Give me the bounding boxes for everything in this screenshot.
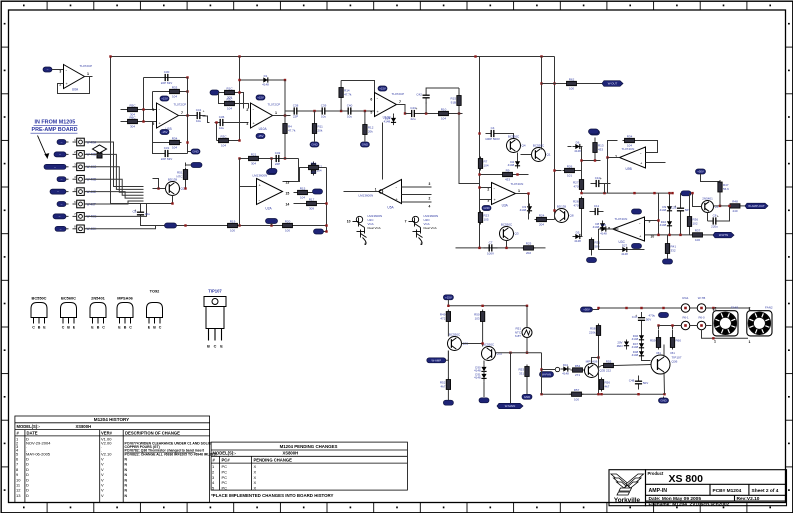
svg-text:151: 151 [656, 351, 661, 355]
net pill R52 [443, 400, 453, 405]
junction [657, 219, 659, 221]
wire U5A input 4 [402, 201, 432, 203]
wire C39-C40 [331, 110, 343, 112]
resistor R21 [247, 152, 261, 165]
svg-text:331: 331 [519, 371, 524, 375]
svg-text:XS800H: XS800H [283, 451, 299, 456]
connector pin 1 W-40A [73, 138, 98, 146]
resistor R20 [281, 219, 295, 232]
op-amp U1B [152, 103, 186, 132]
wire to C38 [285, 110, 290, 112]
wire to out flag [579, 83, 603, 85]
svg-text:TL074CN: TL074CN [511, 182, 524, 186]
transistor package TIP107 TO-220 [204, 289, 226, 349]
op-amp U5A LM13600N [379, 180, 402, 204]
svg-text:NTC: NTC [176, 174, 183, 178]
svg-text:433: 433 [598, 147, 603, 151]
svg-text:Yorkville: Yorkville [614, 497, 641, 504]
svg-text:6: 6 [152, 108, 154, 112]
svg-text:R19: R19 [230, 219, 236, 223]
wire to rtn flag [705, 234, 714, 236]
junction [668, 234, 670, 236]
svg-text:--: -- [57, 190, 59, 194]
wire U9B down to rail [607, 158, 609, 194]
thermistor R51 [522, 328, 532, 338]
resistor R62 [565, 77, 579, 90]
wire R gnd drop 2 [364, 111, 366, 125]
svg-text:Dual VCA: Dual VCA [424, 226, 437, 230]
svg-text:R2C: R2C [226, 97, 233, 101]
net pill U3C+ [632, 209, 642, 214]
svg-text:4148: 4148 [632, 337, 639, 341]
svg-text:47.7k: 47.7k [288, 128, 296, 132]
power pill U10A - [256, 134, 265, 139]
wire pill left [186, 164, 192, 166]
resistor R17 [305, 197, 319, 210]
diode D2 [508, 159, 520, 169]
svg-text:W-FAN: W-FAN [542, 372, 551, 376]
svg-text:204: 204 [539, 223, 544, 227]
resistor R58 [589, 324, 601, 338]
svg-text:10u: 10u [196, 119, 201, 123]
wire R36 top [689, 193, 691, 214]
wire pill to R1 [219, 92, 225, 94]
capacitor C48 [629, 376, 648, 390]
diode D8 [593, 221, 605, 231]
wire R60 to row2 [672, 326, 674, 330]
wire R9 right [515, 174, 529, 176]
svg-text:4k7: 4k7 [605, 384, 610, 388]
wire R9 left [480, 174, 501, 176]
svg-text:3: 3 [429, 182, 431, 186]
svg-text:X: X [254, 486, 257, 491]
junction [668, 192, 670, 194]
wire to gnd 2 [364, 137, 366, 142]
wire bundle 7 [84, 204, 146, 217]
svg-text:W-OUT: W-OUT [608, 82, 618, 86]
svg-text:4148: 4148 [621, 252, 628, 256]
svg-text:222: 222 [606, 369, 611, 373]
test point W-7B [697, 304, 706, 313]
svg-text:1: 1 [518, 189, 520, 193]
net pill fan+ [659, 313, 669, 318]
junction [142, 120, 144, 122]
net pill W-FAN [540, 372, 554, 378]
svg-text:Dual VCA: Dual VCA [368, 226, 381, 230]
net pill Q2 top [696, 169, 706, 174]
junction [606, 156, 608, 158]
capacitor C10 [591, 176, 605, 187]
test point W4A [555, 367, 559, 371]
svg-text:VER#: VER# [101, 431, 113, 436]
connector pin 6 W-40F [73, 200, 97, 208]
svg-text:6.8T: 6.8T [515, 334, 521, 338]
net label pin 3 [44, 164, 66, 169]
capacitor C11 [590, 204, 604, 215]
wire Q35 collector [592, 358, 599, 364]
svg-text:R1C: R1C [226, 86, 233, 90]
svg-text:100V: 100V [487, 252, 494, 256]
wire fan bias rail [448, 305, 527, 307]
svg-text:20k: 20k [368, 129, 373, 133]
svg-text:1: 1 [749, 340, 751, 344]
resistor R3 [217, 134, 231, 147]
svg-text:GND: GND [483, 206, 489, 210]
svg-text:100: 100 [230, 229, 235, 233]
diode D6 [573, 140, 583, 153]
svg-text:PRE-AMP BOARD: PRE-AMP BOARD [32, 127, 78, 133]
junction [478, 173, 480, 175]
junction [109, 55, 111, 57]
wire pill stub [271, 223, 273, 226]
resistor R1 [223, 86, 237, 99]
net pill row [267, 170, 277, 175]
wire R41 bottom [667, 256, 669, 259]
svg-text:AMP-IN: AMP-IN [649, 488, 668, 494]
net label pin 8 [55, 226, 66, 231]
wire pill to Q31 [446, 351, 449, 361]
wire U10B feedback [341, 81, 374, 93]
resistor R49 [440, 310, 451, 324]
net label pin 5 [50, 189, 66, 194]
wire R26 left [555, 170, 562, 172]
junction [186, 114, 188, 116]
svg-text:X: X [254, 469, 257, 474]
resistor R41 [665, 242, 676, 256]
svg-text:C48: C48 [629, 379, 635, 383]
svg-text:BC550C: BC550C [508, 134, 520, 138]
svg-text:BD139: BD139 [168, 177, 178, 181]
wire column 658 [658, 193, 660, 235]
svg-text:GND: GND [524, 395, 530, 399]
svg-text:4148: 4148 [660, 223, 667, 227]
wire Q36 emitter down [663, 372, 666, 394]
wire U5A input 2 [402, 194, 432, 196]
svg-text:R3C: R3C [220, 134, 227, 138]
svg-text:--: -- [47, 68, 49, 72]
wire to R62 [542, 83, 566, 85]
junction [526, 352, 528, 354]
wire pin14 to R17 [294, 203, 305, 205]
wire tp row2 mid [690, 325, 697, 327]
resistor R28 [573, 197, 584, 211]
wire fan vertical [326, 168, 328, 232]
transistor Q2 [702, 196, 719, 212]
junction [728, 205, 730, 207]
wire U10A output vertical [284, 80, 286, 159]
wire U2A in [240, 186, 257, 188]
capacitor C32 [271, 151, 285, 166]
svg-text:332: 332 [671, 248, 676, 252]
net flag W-MAIN-OUT [497, 403, 523, 408]
net flag AMP-RTN [713, 232, 734, 238]
transistor package 2N5401 [90, 296, 106, 330]
wire col669 top [669, 193, 671, 198]
svg-text:V: V [101, 493, 104, 498]
junction [284, 79, 286, 81]
junction [516, 173, 518, 175]
svg-text:4148: 4148 [384, 120, 391, 124]
resistor R22 [311, 162, 322, 176]
transistor Q32 [482, 342, 503, 360]
svg-text:ZEN: ZEN [617, 344, 623, 348]
svg-text:TL074CN: TL074CN [615, 217, 628, 221]
wire U3A in- [480, 187, 492, 189]
wire Q32 to D30 [483, 361, 485, 365]
wire U6A output stub [85, 76, 93, 78]
svg-text:C: C [102, 326, 105, 330]
junction [325, 202, 327, 204]
junction [474, 55, 476, 57]
junction [505, 247, 507, 249]
wire R33 row [153, 91, 188, 93]
svg-text:X: X [254, 464, 257, 469]
wire pill to pin 5 [66, 191, 69, 193]
resistor R12 [363, 123, 374, 137]
capacitor C42 [416, 90, 429, 104]
resistor R48 [728, 200, 742, 213]
wire row 160 [582, 160, 601, 162]
net pill thermistor [191, 163, 202, 168]
svg-text:104: 104 [441, 117, 446, 121]
junction [458, 112, 460, 114]
resistor R53 [518, 365, 529, 379]
wire Q22 base [153, 188, 166, 190]
junction [594, 159, 596, 161]
svg-text:IN FROM M1205: IN FROM M1205 [35, 120, 76, 126]
net pill R41 [663, 259, 673, 264]
junction [684, 307, 686, 309]
wire Q31 to Q32 [462, 343, 483, 345]
svg-text:+15V: +15V [161, 97, 168, 101]
svg-text:10u: 10u [145, 212, 150, 216]
junction [637, 393, 639, 395]
wire C41 to C36 [203, 116, 210, 123]
wire pin15 to R15f [294, 192, 296, 194]
svg-text:100: 100 [569, 87, 574, 91]
svg-text:M1204 HISTORY: M1204 HISTORY [94, 417, 130, 422]
wire Q22 emitter [144, 196, 173, 204]
wire diode tap [393, 114, 395, 116]
wire R56 top stub [601, 378, 603, 380]
resistor R16 [307, 161, 321, 174]
junction [671, 324, 673, 326]
svg-text:470: 470 [573, 203, 578, 207]
svg-text:Q35: Q35 [600, 369, 606, 373]
junction [657, 324, 659, 326]
capacitor C8b [708, 213, 722, 228]
svg-text:101: 101 [567, 174, 572, 178]
diode D48 [632, 349, 644, 359]
power pill U10A + [256, 95, 265, 100]
svg-text:304: 304 [130, 125, 135, 129]
junction [270, 224, 272, 226]
arrow to connector [38, 136, 48, 159]
net pill U3C- [632, 244, 642, 249]
svg-text:Q8: Q8 [570, 214, 574, 218]
svg-text:C: C [214, 345, 217, 349]
svg-text:R26: R26 [567, 164, 573, 168]
svg-text:104: 104 [221, 144, 226, 148]
diode D24 [384, 115, 396, 125]
junction [325, 224, 327, 226]
junction [691, 192, 693, 194]
junction [580, 159, 582, 161]
net pill rail192 [681, 191, 691, 196]
svg-text:--: -- [61, 202, 63, 206]
wire R15 right [310, 192, 313, 194]
transistor package TO92 [147, 289, 163, 330]
wire R53 down [526, 379, 528, 395]
junction [600, 393, 602, 395]
wire C47 down [641, 326, 643, 333]
fan FAN1 [713, 311, 738, 336]
wire R17 right [319, 203, 327, 205]
wire into Q35 [584, 369, 586, 371]
svg-text:2N5401: 2N5401 [702, 196, 713, 200]
wire Q2 emitter down [707, 213, 709, 222]
svg-text:R48: R48 [732, 200, 738, 204]
junction [340, 110, 342, 112]
junction [625, 307, 627, 309]
svg-text:50V: 50V [643, 381, 648, 385]
resistor R24 [535, 213, 549, 226]
svg-text:470: 470 [573, 184, 578, 188]
wire into R5 [121, 109, 126, 111]
diode D10 [660, 219, 672, 229]
wire R50 down [482, 324, 484, 347]
svg-text:--: -- [59, 215, 61, 219]
resistor R60 [670, 336, 681, 350]
svg-text:NOV-29-2004: NOV-29-2004 [26, 440, 51, 445]
wire D31 down [483, 381, 485, 397]
wire fan2 power [749, 308, 751, 311]
transistor Q35 [585, 359, 606, 377]
svg-text:103: 103 [475, 316, 480, 320]
net flag MAIN-OUT [602, 81, 623, 87]
resistor R7 [478, 157, 489, 171]
svg-text:104: 104 [484, 163, 489, 167]
net pill fan [314, 229, 324, 234]
wire R3 right [231, 140, 240, 142]
svg-text:B: B [38, 326, 41, 330]
wire bundle 2 [84, 154, 143, 189]
svg-text:151: 151 [670, 351, 675, 355]
svg-text:R6C: R6C [129, 115, 136, 119]
svg-text:C38: C38 [293, 103, 299, 107]
wire Q4 to D2 [517, 153, 519, 159]
wire C43 to R10 [420, 113, 437, 115]
wire C10 junction [604, 184, 606, 194]
connector pin 2 W-40B [73, 150, 97, 158]
svg-text:W-7B: W-7B [698, 296, 705, 300]
svg-text:4148: 4148 [474, 376, 481, 380]
svg-text:4148: 4148 [508, 163, 515, 167]
svg-text:R20: R20 [285, 219, 291, 223]
wire C31 right [174, 153, 188, 155]
wire pill to pin 3 [66, 166, 69, 168]
junction [540, 82, 542, 84]
wire pill to pin 7 [66, 215, 69, 217]
svg-text:XS800H: XS800H [76, 424, 92, 429]
junction [325, 230, 327, 232]
connector pin 5 W-40E [73, 187, 97, 195]
diode D1 [261, 74, 271, 87]
resistor R47 [718, 180, 729, 194]
svg-text:C11: C11 [594, 204, 600, 208]
wire fan1 power [712, 308, 714, 311]
wire Q22 bias [153, 179, 159, 189]
svg-text:C10: C10 [595, 176, 601, 180]
junction [603, 192, 605, 194]
svg-text:2: 2 [246, 108, 248, 112]
capacitor C39 [317, 103, 331, 118]
resistor R59 [650, 336, 661, 350]
svg-text:4148: 4148 [600, 232, 607, 236]
wire R6 to pin5 [140, 121, 157, 123]
svg-text:D6: D6 [576, 140, 580, 144]
wire left rail 479 [479, 57, 481, 249]
svg-text:R17: R17 [309, 197, 315, 201]
svg-text:2: 2 [715, 307, 717, 311]
net pill U9B [589, 129, 599, 134]
op-amp U3A [487, 182, 523, 208]
svg-text:*PLACE IMPLEMENTED CHANGES INT: *PLACE IMPLEMENTED CHANGES INTO BOARD HI… [211, 493, 333, 498]
wire R58 down [598, 338, 600, 358]
capacitor C36 [215, 115, 229, 130]
resistor R52 [440, 378, 451, 392]
wire long left vertical to rail [239, 159, 241, 226]
junction [663, 393, 665, 395]
net pill U10A input [210, 90, 219, 95]
svg-text:E: E [220, 345, 223, 349]
junction [425, 112, 427, 114]
svg-text:U9B: U9B [626, 167, 632, 171]
svg-text:2N5401: 2N5401 [91, 296, 105, 301]
net label pin 6 [57, 202, 66, 207]
junction [597, 356, 599, 358]
net pill rail [165, 223, 177, 228]
svg-text:309: 309 [309, 207, 314, 211]
connector pin 3 W-40C [73, 163, 98, 171]
junction [653, 192, 655, 194]
junction [270, 157, 272, 159]
resistor R4 [283, 122, 296, 136]
wire left drop [239, 80, 241, 141]
wire Q31 emitter down [447, 351, 449, 379]
svg-text:LM13600N: LM13600N [253, 174, 268, 178]
resistor R11 [312, 122, 323, 136]
wire thermistor bottom [185, 182, 187, 189]
svg-text:LM13600N: LM13600N [359, 194, 374, 198]
svg-text:XS 800: XS 800 [669, 473, 704, 485]
wire Q2 collector [714, 205, 721, 207]
thermistor R51 [176, 168, 187, 182]
resistor R54 [571, 364, 585, 377]
svg-text:B: B [97, 326, 100, 330]
svg-text:DESCRIPTION OF CHANGE: DESCRIPTION OF CHANGE [125, 431, 180, 436]
svg-text:TO92: TO92 [150, 289, 160, 294]
svg-text:D41: D41 [563, 363, 569, 367]
svg-text:TL072CP: TL072CP [392, 92, 405, 96]
capacitor C30 [160, 70, 174, 85]
svg-text:3: 3 [246, 122, 248, 126]
svg-text:B: B [124, 326, 127, 330]
svg-text:C39: C39 [321, 103, 327, 107]
svg-text:W-AMP: W-AMP [432, 358, 442, 362]
wire U9B out loop [608, 141, 620, 158]
wire into Q1 [541, 148, 543, 150]
